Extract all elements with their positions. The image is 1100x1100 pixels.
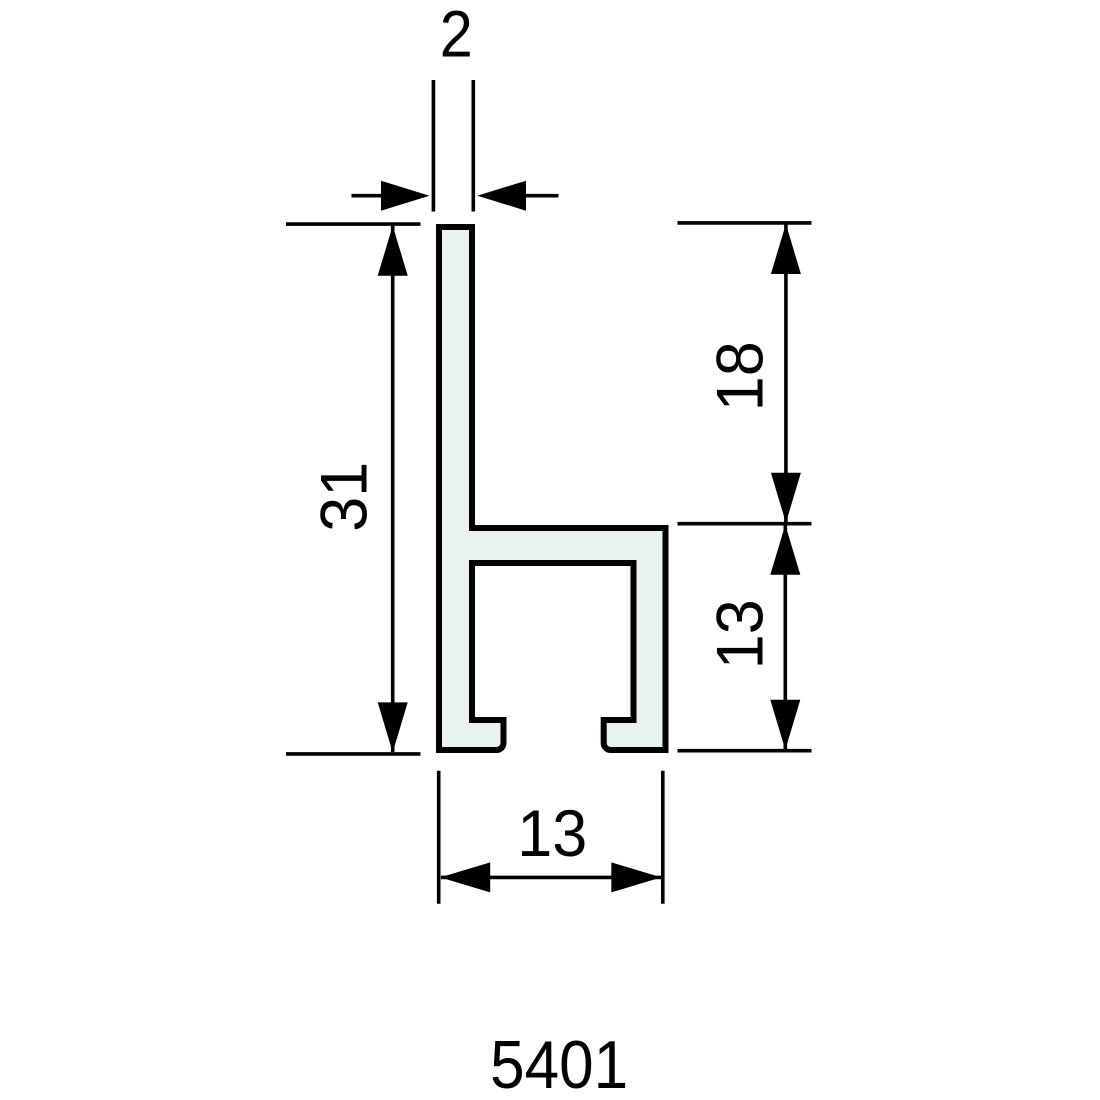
dimension 31: bottom extension line — [286, 752, 421, 756]
dimension 13 right: bottom arrowhead pointing down — [770, 700, 800, 750]
dimension 2: left arrowhead pointing right — [381, 181, 430, 211]
dimension 13 right: bottom extension line — [678, 749, 812, 753]
svg-text:5401: 5401 — [490, 1027, 628, 1100]
profile 5401 cross-section outline — [439, 227, 666, 750]
dimension 13 bottom: right extension line — [661, 771, 665, 904]
dimension 31: top extension line — [286, 222, 421, 226]
dimension 2: left leader tail — [352, 194, 386, 198]
dimension 31: top arrowhead pointing up — [378, 226, 408, 276]
dimension 13 right: vertical dimension line — [783, 525, 787, 750]
svg-text:13: 13 — [702, 599, 776, 669]
dimension 13 bottom: left extension line — [437, 771, 441, 904]
dimension 18: top extension line — [678, 221, 812, 225]
dimension 13 right: top arrowhead pointing up — [770, 525, 800, 575]
shared middle extension line between 18 and 13 — [678, 522, 812, 526]
dimension 18: top arrowhead pointing up — [771, 224, 801, 274]
dimension 13 bottom: right arrowhead pointing right — [611, 862, 661, 892]
svg-text:13: 13 — [517, 796, 587, 870]
dimension 2: right extension line — [471, 80, 475, 212]
svg-text:31: 31 — [307, 462, 381, 532]
dimension 18: bottom arrowhead pointing down — [771, 473, 801, 523]
dimension 2: left extension line — [432, 80, 436, 212]
dimension 31: bottom arrowhead pointing down — [378, 702, 408, 752]
dimension 31: vertical dimension line — [391, 226, 395, 752]
dimension 18: vertical dimension line — [784, 224, 788, 523]
dimension 13 bottom: horizontal dimension line — [441, 876, 661, 880]
svg-text:2: 2 — [440, 0, 473, 71]
dimension 2: right leader tail — [526, 194, 559, 198]
dimension 2: right arrowhead pointing left — [477, 181, 526, 211]
dimension 13 bottom: left arrowhead pointing left — [440, 862, 490, 892]
svg-text:18: 18 — [702, 341, 776, 411]
